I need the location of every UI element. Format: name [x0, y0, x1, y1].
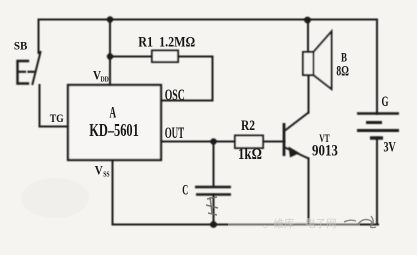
wire right branch to battery — [376, 20, 378, 114]
wire VDD vertical — [109, 20, 111, 86]
watermark smudge left — [21, 178, 89, 218]
wire OSC horizontal — [161, 100, 213, 102]
svg-text:1kΩ: 1kΩ — [238, 146, 262, 163]
wire VSS vertical — [112, 160, 114, 225]
node C bottom — [210, 221, 217, 228]
node R1 tap — [107, 53, 113, 59]
wire SB bottom stub — [39, 85, 41, 127]
svg-text:OUT: OUT — [165, 125, 185, 142]
node VDD top — [107, 16, 113, 22]
switch SB blade — [33, 52, 41, 84]
svg-text:SS: SS — [103, 171, 110, 179]
svg-text:A: A — [109, 104, 116, 121]
wire battery bottom — [376, 138, 378, 225]
svg-text:G: G — [382, 93, 389, 110]
svg-text:。维库一电子网: 。维库一电子网 — [263, 217, 337, 230]
svg-text:C: C — [182, 181, 188, 198]
wire R1 left — [110, 56, 152, 58]
resistor R1 — [152, 51, 178, 63]
svg-text:R1 1.2MΩ: R1 1.2MΩ — [138, 33, 195, 50]
node speaker top — [304, 17, 311, 24]
capacitor C plates — [195, 187, 231, 195]
op-amp / IC U1 box A KD-5601 — [68, 85, 161, 160]
resistor R2 — [235, 136, 263, 149]
wire R1 right — [178, 56, 213, 58]
switch SB actuator bracket — [18, 61, 29, 84]
wire speaker top stub — [307, 20, 309, 53]
svg-text:9013: 9013 — [312, 142, 338, 160]
wire SB top stub — [38, 20, 40, 54]
battery G plates — [357, 114, 399, 139]
transistor Q1 VT 9013 — [284, 113, 309, 159]
node junction dots — [107, 16, 311, 228]
svg-text:R2: R2 — [241, 117, 255, 134]
watermark squiggle near capacitor — [206, 197, 218, 215]
svg-text:DD: DD — [101, 76, 110, 84]
wire C vertical top — [213, 142, 215, 187]
wire OSC vertical — [212, 57, 214, 101]
watermark fade band over bottom rail — [228, 218, 360, 230]
wire bottom rail — [113, 224, 379, 226]
wire emitter down — [308, 159, 310, 225]
watermark ghost text — [263, 217, 337, 230]
svg-text:8Ω: 8Ω — [336, 62, 348, 79]
svg-text:OSC: OSC — [165, 86, 185, 104]
node OUT / C — [210, 138, 216, 144]
svg-text:V: V — [95, 163, 103, 178]
wire top rail — [39, 19, 378, 21]
svg-text:KD–5601: KD–5601 — [89, 121, 139, 141]
wire speaker to collector — [308, 75, 310, 113]
watermark squiggle near battery corner — [344, 216, 376, 228]
svg-text:SB: SB — [14, 40, 28, 52]
wire OUT to base — [161, 141, 284, 143]
speaker B cone — [314, 32, 332, 90]
wire TG horizontal — [40, 126, 69, 128]
wire C vertical bottom — [213, 195, 215, 225]
switch SB actuator dashed link — [19, 71, 36, 73]
svg-text:3V: 3V — [384, 139, 396, 155]
speaker B driver — [303, 52, 314, 75]
svg-text:TG: TG — [50, 112, 64, 125]
